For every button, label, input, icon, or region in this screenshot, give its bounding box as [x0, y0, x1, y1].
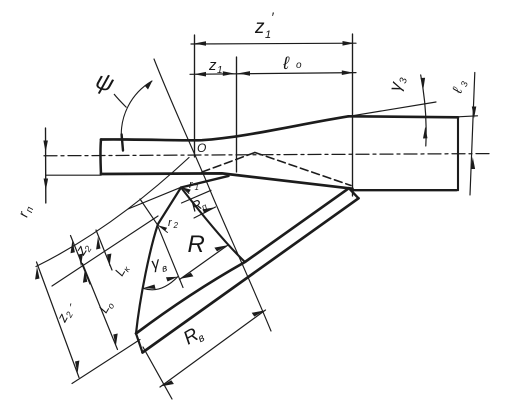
arrow gamma3 upper (down) [421, 78, 426, 90]
svg-text:3: 3 [459, 80, 470, 88]
dimension line Z2 [71, 236, 91, 285]
dimension line Z1 and l0 [190, 73, 356, 75]
Rn lower line with arrow [194, 207, 216, 218]
svg-text:r: r [168, 217, 173, 229]
expanded box right edge [457, 117, 459, 190]
rail through apex [128, 188, 180, 209]
arrow Rv right [252, 310, 265, 316]
branch band left end cap [136, 334, 143, 353]
svg-text:′: ′ [271, 9, 275, 25]
extension line x=236 (Z1 right) [236, 57, 238, 172]
hidden contour dashed right [255, 153, 351, 186]
extension line x=194 (Z1 left) [194, 35, 196, 157]
label Z2' [53, 306, 75, 326]
label Lk [112, 261, 133, 280]
l3 dimension line (right) [470, 73, 475, 196]
svg-text:1: 1 [265, 29, 271, 41]
dimension line Lk [96, 230, 112, 270]
svg-text:3: 3 [398, 76, 410, 84]
branch band upper edge [136, 188, 349, 333]
rail through O [36, 158, 189, 267]
dimension line R [180, 245, 229, 280]
tube left edge [99, 140, 102, 175]
arrow r2 leader [159, 226, 168, 231]
extension line x=352 (l0 right) [352, 34, 354, 196]
arrow R right [214, 245, 227, 251]
label Z2 [72, 240, 94, 260]
arrow l3 upper (down) [472, 107, 477, 119]
svg-text:в: в [161, 263, 169, 275]
branch band right end cap [349, 188, 359, 198]
branch apex left edge [136, 188, 181, 334]
arrow l0 right [342, 70, 354, 75]
label gamma3 [385, 74, 410, 93]
label l3 [448, 78, 469, 97]
branch apex right edge [181, 188, 245, 263]
arrow Z1 left [194, 72, 206, 77]
dimension line Z1' [191, 42, 356, 45]
arrow gamma3 lower (up) [423, 127, 428, 139]
svg-text:z: z [254, 17, 265, 38]
svg-text:ψ: ψ [92, 67, 117, 98]
svg-text:O: O [197, 141, 206, 155]
rail through band lower-left corner [72, 340, 140, 384]
dimension line Z2' [37, 262, 80, 378]
label Rn [188, 194, 208, 216]
dimension line L0 [83, 264, 118, 350]
tube top edge [101, 116, 349, 140]
Rn upper line [182, 190, 212, 203]
arrow r1 leader [182, 187, 191, 192]
psi tail [114, 94, 127, 108]
arrow Z2 top [71, 240, 75, 253]
svg-text:1: 1 [217, 65, 223, 76]
steep line below band cap [143, 347, 172, 399]
psi arc end tick on tube edge [122, 135, 123, 151]
arrow gamma-v right [166, 277, 178, 282]
svg-text:z: z [208, 57, 217, 74]
arrow gamma-v left [144, 285, 156, 290]
tube bottom edge [101, 173, 353, 188]
svg-text:ℓ: ℓ [282, 53, 290, 73]
gamma3 angle arc [421, 75, 426, 146]
hidden contour dashed left [202, 153, 255, 173]
arrow l0 left [238, 71, 250, 76]
label rn [15, 203, 37, 220]
expanded box top edge [349, 116, 459, 117]
taper extension thin line [349, 102, 436, 116]
branch apex to junction edge [181, 176, 229, 188]
svg-text:o: o [296, 60, 302, 71]
arrow Rv left [161, 380, 174, 386]
dimension line Rv [160, 310, 266, 387]
rail through r2 corner [52, 216, 158, 286]
arrow Z2 bottom [79, 254, 83, 267]
expanded box bottom edge [353, 189, 457, 191]
arrow psi arc top [145, 81, 153, 90]
arrow rn lower (down) [44, 179, 49, 191]
r1 leader line [183, 188, 190, 194]
svg-text:2: 2 [173, 221, 179, 230]
centerline (dash-dot axis) [44, 154, 490, 156]
arrow Z2' bottom [75, 361, 79, 374]
arrow Lk top [96, 237, 100, 250]
arrow L0 top [83, 270, 87, 283]
arrow Z1' left [194, 41, 206, 46]
arrow Lk bottom [107, 254, 111, 267]
psi inclined axis line [154, 59, 271, 331]
rn dimension line (left radius) [45, 128, 47, 203]
psi angle arc [121, 81, 152, 140]
steep line through r2 corner (R reference) [140, 199, 183, 288]
r2 leader line [159, 226, 168, 233]
label L0 [96, 298, 117, 317]
gamma-v angle arc [144, 277, 178, 290]
arrow Z1' right [343, 41, 355, 46]
arrow Z2' top [35, 267, 39, 280]
box top extension right [458, 116, 478, 117]
arrow Rn [202, 207, 215, 213]
arrow Z1 right [223, 71, 235, 76]
arrow l3 lower (up) [471, 157, 476, 169]
svg-text:1: 1 [195, 183, 199, 192]
svg-text:′: ′ [69, 302, 72, 314]
arrow R left [180, 273, 193, 279]
arrow L0 bottom [113, 334, 117, 347]
branch band lower edge [143, 198, 359, 352]
label Rv [180, 322, 207, 351]
svg-text:R: R [188, 231, 205, 258]
arrow rn upper (down) [43, 141, 48, 153]
bottom edge extension to rn line [46, 174, 101, 176]
label gamma-v [149, 253, 168, 277]
